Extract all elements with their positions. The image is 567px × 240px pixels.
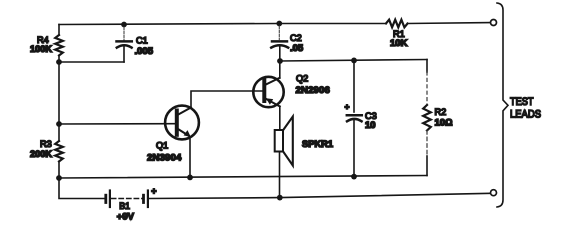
svg-text:100K: 100K [30,44,52,54]
svg-text:SPKR1: SPKR1 [302,139,333,149]
wire R4 bottom stub [58,56,60,63]
wire mid rail C2 to R2 [280,60,427,62]
node C3 bottom junction [351,174,357,180]
svg-text:10K: 10K [390,38,408,49]
capacitor C2 [271,26,288,61]
resistor R2 [423,105,431,131]
wire Q1 base [59,123,175,125]
wire Q2 emitter down to speaker [279,107,281,131]
wire left vertical lower [58,124,60,141]
svg-text:200K: 200K [30,149,52,159]
svg-text:C2: C2 [290,33,302,43]
transistor Q2 [253,77,283,107]
wire C1 bottom to R4 node [59,61,124,63]
svg-text:Q1: Q1 [156,140,168,150]
resistor R1 [386,20,408,28]
wire left vertical middle [58,62,60,124]
svg-text:.005: .005 [135,46,154,57]
speaker SPKR1 [275,117,293,166]
wire Q1 collector up and over to Q2 [191,91,263,108]
node speaker battery junction [277,195,283,201]
wire R2 branch bottom [426,156,428,176]
node C2 bottom junction [277,58,283,64]
wire left drop to battery [59,178,105,199]
svg-text:10Ω: 10Ω [435,118,453,129]
svg-text:+9V: +9V [117,212,135,223]
svg-text:+: + [151,186,156,196]
wire R2 branch top [426,60,428,73]
svg-text:R2: R2 [435,107,447,117]
resistor R4 [55,35,63,56]
svg-text:2N2906: 2N2906 [296,85,331,96]
wire top rail left segment [59,24,386,25]
node C3 top junction [351,58,357,64]
terminal bottom test lead [491,190,497,196]
svg-text:+: + [345,101,350,111]
wire speaker bottom [279,152,281,198]
node C2 top junction [276,21,282,27]
svg-text:10: 10 [365,120,376,131]
capacitor C1 [117,27,132,62]
wire R3 bottom stub [58,162,60,179]
svg-text:2N3904: 2N3904 [147,153,182,164]
node base of Q1 junction [56,121,62,127]
capacitor C3 [347,60,362,176]
node C1 top junction [121,22,127,28]
svg-text:B1: B1 [119,201,130,211]
wire Q1 emitter down [189,138,191,178]
terminal top test lead [491,20,497,26]
node R4/C1 junction [56,59,62,65]
node bottom-left rail junction [56,175,62,181]
battery B1 [106,191,148,208]
transistor Q1 [165,106,199,140]
wire top rail right segment [408,22,491,25]
brace test leads [497,3,508,207]
wire R2 branch bottom faint [426,131,428,157]
wire battery to bottom terminal [149,193,490,198]
wire left vertical upper [58,25,60,36]
svg-text:C1: C1 [136,36,148,46]
wire R2 branch top faint [426,72,428,105]
svg-text:Q2: Q2 [296,74,308,84]
wire Q2 collector up [279,61,281,78]
svg-text:R3: R3 [40,139,52,149]
svg-text:TEST: TEST [510,96,534,108]
resistor R3 [55,141,63,162]
node Q1 emitter rail junction [187,175,193,181]
wire bottom rail [59,176,427,179]
svg-text:LEADS: LEADS [510,108,541,120]
svg-text:.05: .05 [290,43,304,54]
